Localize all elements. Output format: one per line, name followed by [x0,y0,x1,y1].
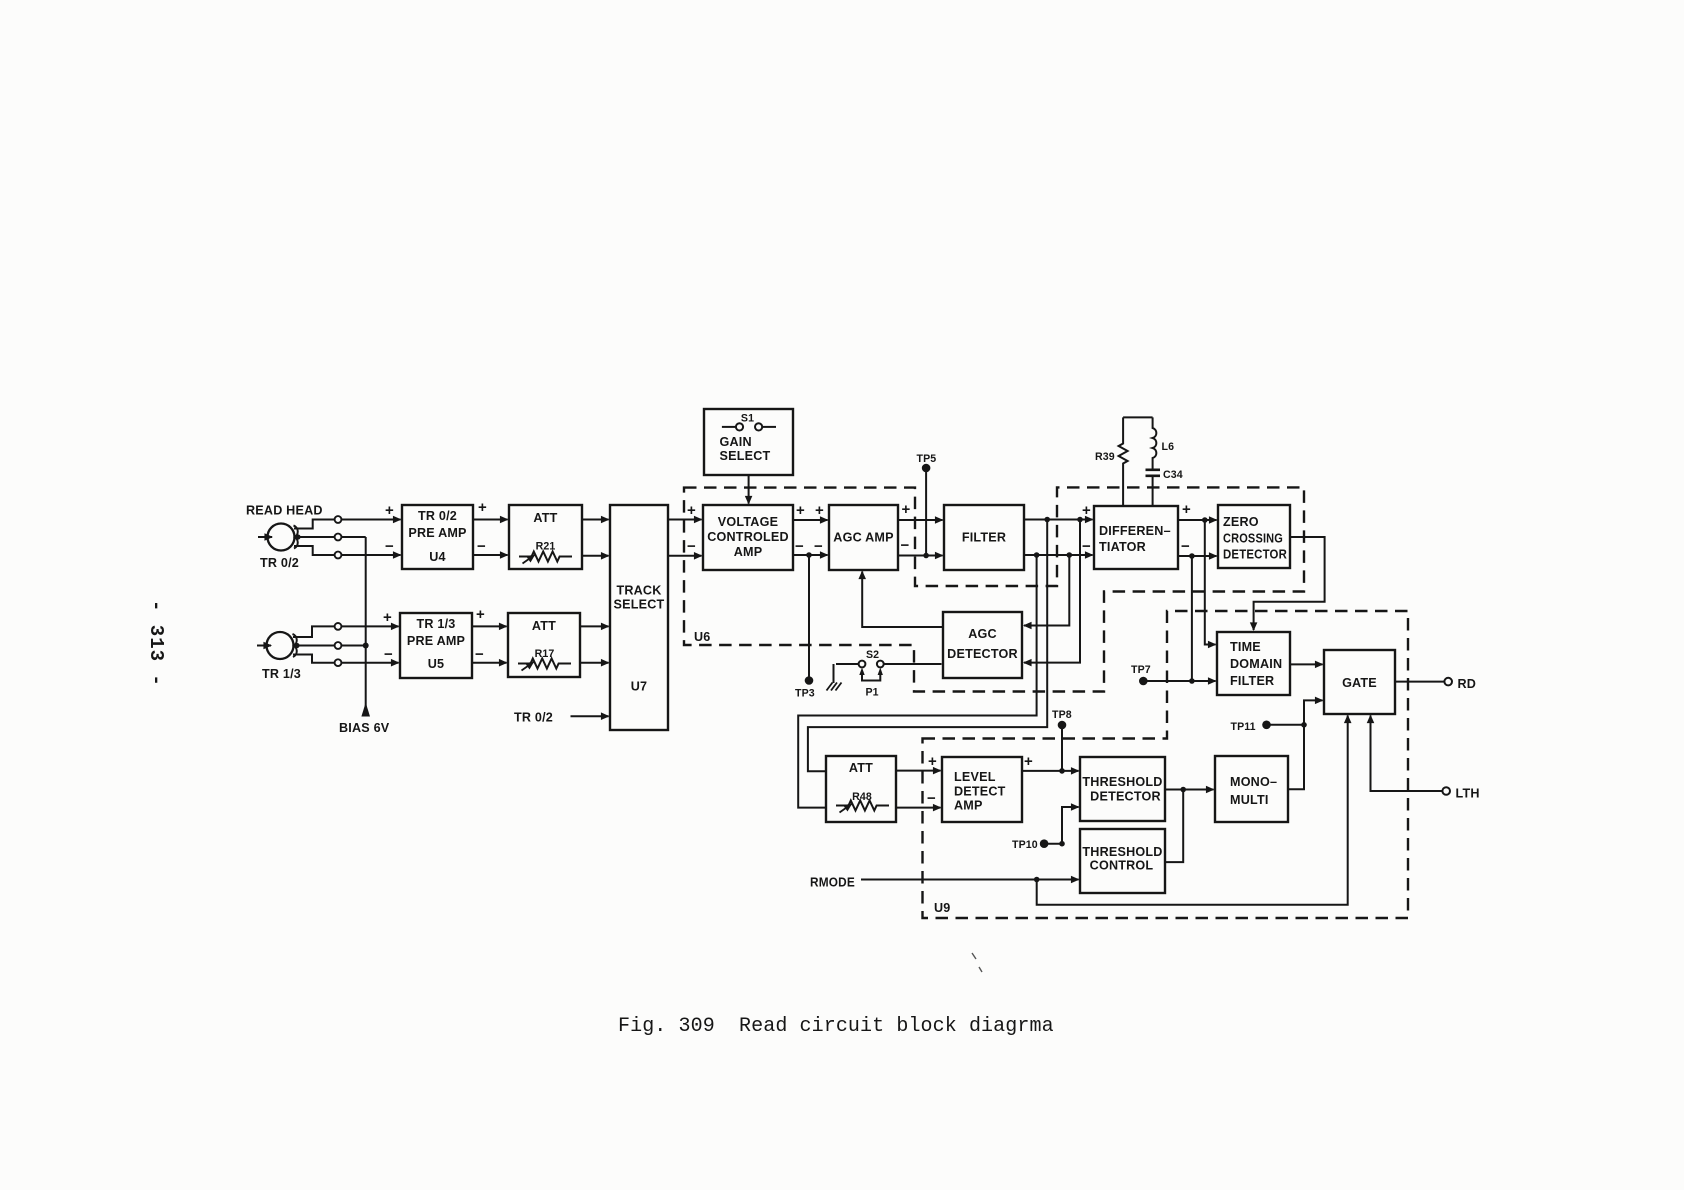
IC U9 dashed boundary [923,611,1409,918]
svg-text:U5: U5 [428,657,445,671]
block S1 GAIN SELECT [704,409,793,475]
svg-text:BIAS 6V: BIAS 6V [339,721,390,735]
svg-text:AGC: AGC [968,627,997,641]
svg-text:DETECTOR: DETECTOR [947,647,1018,661]
test point TP5 [922,464,931,473]
block GATE [1324,650,1395,714]
wire ATT R48 to LDA - [896,807,941,809]
svg-text:CONTROL: CONTROL [1090,859,1154,873]
block AGC AMP [829,505,898,570]
svg-text:R21: R21 [536,541,556,553]
caption [618,1015,1054,1038]
wire U4 + to ATT [473,519,508,521]
svg-text:U6: U6 [694,630,711,644]
svg-text:−: − [927,790,936,807]
wire AGC AMP to FILTER - [898,555,943,557]
svg-text:+: + [1082,502,1091,519]
block DIFFERENTIATOR [1094,506,1178,569]
block U4 TR 0/2 PRE AMP [402,505,473,569]
wire FILTER to DIFFERENTIATOR + [1024,519,1093,521]
svg-text:+: + [796,502,805,519]
wire ATT to U7 + [582,519,609,521]
svg-text:PRE AMP: PRE AMP [407,634,465,648]
svg-text:U9: U9 [934,901,951,915]
wire MONO-MULTI to GATE [1288,700,1323,789]
wire AGC AMP to FILTER + [898,519,943,521]
wire - riser to TP7 line [1191,556,1193,681]
svg-text:−: − [477,538,486,555]
svg-text:+: + [478,499,487,516]
wire head TR1/3 center tap [293,645,366,647]
svg-text:−: − [795,538,804,555]
test point TP3 [805,676,814,685]
svg-text:−: − [814,538,823,555]
test point TP10 [1040,839,1049,848]
svg-text:TRACK: TRACK [616,584,661,598]
svg-text:FILTER: FILTER [962,531,1006,545]
wire TDF to GATE [1290,663,1323,665]
block VOLTAGE CONTROLED AMP [703,505,793,570]
block AGC DETECTOR [943,612,1022,678]
svg-text:DOMAIN: DOMAIN [1230,657,1282,671]
wire ZCD output to TDF top [1254,537,1325,630]
wire RMODE to THRESHOLD CONTROL [861,879,1079,881]
wire ATT R48 to LDA + [896,770,941,772]
svg-text:TIME: TIME [1230,640,1261,654]
ground [827,664,842,691]
block THRESHOLD CONTROL [1080,829,1165,893]
svg-text:+: + [902,501,911,518]
svg-text:+: + [476,606,485,623]
svg-text:VOLTAGE: VOLTAGE [718,515,778,529]
svg-text:TR 1/3: TR 1/3 [262,667,301,681]
wire head TR0/2 center tap [294,536,366,538]
wire LTH to GATE bottom [1371,716,1443,792]
resistor R21 symbol [519,552,572,564]
svg-text:+: + [928,753,937,770]
wire BIAS 6V line [365,537,367,713]
block FILTER [944,505,1024,570]
svg-text:THRESHOLD: THRESHOLD [1082,845,1162,859]
switch S2 [836,661,942,668]
wire DIFF + to ZCD [1178,519,1217,521]
block TIME DOMAIN FILTER [1217,632,1290,695]
svg-text:TP10: TP10 [1012,839,1038,851]
svg-text:TR 0/2: TR 0/2 [260,556,299,570]
terminal RD [1444,678,1452,686]
svg-text:U4: U4 [429,550,446,564]
block ATT R17 [508,613,580,677]
wire head TR0/2 + to U4 [294,520,401,529]
wire U5 - to ATT [472,662,507,664]
wire THRESHOLD DETECTOR to MONO-MULTI [1165,789,1214,791]
svg-text:LEVEL: LEVEL [954,770,996,784]
svg-text:AMP: AMP [734,545,763,559]
node junctions on - line [1034,552,1040,558]
wire RMODE branch to GATE bottom [1037,716,1348,905]
wire ATT to U7 - [582,555,609,557]
wire FILTER to DIFFERENTIATOR - [1024,554,1093,556]
block U5 TR 1/3 PRE AMP [400,613,472,678]
connector pins TR0/2 [335,516,342,523]
wire head TR1/3 - to U5 [293,655,399,663]
svg-text:DETECT: DETECT [954,785,1006,799]
block MONO-MULTI [1215,756,1288,822]
node junctions on + line [1044,517,1050,523]
svg-text:DETECTOR: DETECTOR [1090,790,1161,804]
svg-text:+: + [385,502,394,519]
svg-text:TIATOR: TIATOR [1099,540,1146,554]
resistor R39 [1119,417,1128,506]
svg-text:MONO–: MONO– [1230,775,1277,789]
wire TP3 riser [808,555,810,680]
wire head TR1/3 + to U5 [293,626,399,637]
svg-text:R48: R48 [852,791,872,803]
stray specks [972,953,982,972]
connector pins TR1/3 [335,623,342,630]
wire TP7 to TIME DOMAIN FILTER [1147,680,1216,682]
svg-text:+: + [687,502,696,519]
wire AGC DETECTOR to AGC AMP [862,572,943,628]
wire GAIN SELECT to VCA [748,475,750,504]
svg-text:READ HEAD: READ HEAD [246,504,323,518]
svg-text:U7: U7 [631,680,648,694]
svg-text:TP7: TP7 [1131,664,1151,676]
wire U4 - to ATT [473,554,508,556]
block ATT R21 [509,505,582,569]
wire DIFF - to ZCD [1178,555,1217,557]
svg-text:−: − [385,538,394,555]
resistor R48 symbol [836,801,889,813]
read head TR 0/2 symbol [258,524,298,551]
svg-text:P1: P1 [866,687,879,699]
wire TP5 riser [925,468,927,556]
svg-text:SELECT: SELECT [720,449,771,463]
wire TR 0/2 select input [571,715,609,717]
test point TP8 [1058,721,1067,730]
wire TP11 tap [1270,724,1304,726]
wire link to THRESHOLD CONTROL [1166,790,1184,863]
IC U6 dashed boundary [684,487,1304,691]
wire LDA to THRESHOLD DETECTOR [1022,770,1079,772]
svg-text:TP3: TP3 [795,688,815,700]
svg-text:+: + [1182,501,1191,518]
svg-text:R17: R17 [535,648,555,660]
wire VCA to AGC AMP + [793,519,828,521]
svg-text:SELECT: SELECT [614,598,665,612]
wire + riser to TIME DOMAIN FILTER [1205,520,1216,645]
svg-text:RD: RD [1458,677,1477,691]
svg-text:−: − [687,538,696,555]
svg-text:L6: L6 [1162,441,1175,453]
svg-text:−: − [1181,538,1190,555]
svg-text:CROSSING: CROSSING [1223,532,1283,546]
block ZERO CROSSING DETECTOR [1218,505,1290,568]
svg-text:DIFFEREN–: DIFFEREN– [1099,524,1171,538]
block U7 TRACK SELECT [610,505,668,730]
svg-text:AGC AMP: AGC AMP [833,531,893,545]
svg-text:R39: R39 [1095,451,1115,463]
inductor L6 [1123,417,1156,469]
wire GATE to RD [1395,681,1444,683]
svg-text:S2: S2 [866,649,879,661]
wire TP10 to THRESHOLD DETECTOR [1048,807,1079,844]
svg-text:RMODE: RMODE [810,876,855,890]
jumper P1 [859,668,883,681]
svg-text:S1: S1 [741,413,754,425]
wire + branch to AGC DETECTOR [1024,520,1080,663]
svg-text:GAIN: GAIN [720,435,752,449]
wire U5 + to ATT [472,625,507,627]
wire VCA to AGC AMP - [793,554,828,556]
svg-text:+: + [815,502,824,519]
svg-text:ATT: ATT [849,761,873,775]
wire - branch to ATT R48 lower [798,555,1036,808]
svg-text:−: − [475,646,484,663]
svg-text:DETECTOR: DETECTOR [1223,548,1287,562]
test point TP7 [1139,677,1148,686]
wire - branch to AGC DETECTOR [1024,555,1069,626]
wire ATT to U7 lower - [580,662,609,664]
block THRESHOLD DETECTOR [1080,757,1165,821]
page number -313- [85,600,165,683]
svg-text:ATT: ATT [532,619,556,633]
svg-text:PRE AMP: PRE AMP [408,526,466,540]
svg-text:−: − [901,537,910,554]
block LEVEL DETECT AMP [942,757,1022,822]
terminal LTH [1442,787,1450,795]
svg-text:TP5: TP5 [917,453,937,465]
svg-text:GATE: GATE [1342,676,1377,690]
wire U7 to VCA + [668,519,702,521]
wire head TR0/2 - to U4 [294,546,401,555]
wire TP8 riser [1061,725,1063,771]
svg-text:TR 0/2: TR 0/2 [418,509,457,523]
test point TP11 [1262,721,1271,730]
svg-text:+: + [383,609,392,626]
resistor R17 symbol [518,659,571,671]
svg-text:CONTROLED: CONTROLED [707,530,789,544]
block ATT R48 [826,756,896,822]
svg-text:AMP: AMP [954,799,983,813]
read head TR 1/3 symbol [257,632,297,659]
svg-text:FILTER: FILTER [1230,674,1274,688]
svg-text:TP8: TP8 [1052,709,1072,721]
svg-text:−: − [1082,538,1091,555]
svg-text:TR 1/3: TR 1/3 [417,617,456,631]
svg-text:THRESHOLD: THRESHOLD [1082,775,1162,789]
wire ATT to U7 lower + [580,625,609,627]
svg-text:C34: C34 [1163,469,1183,481]
capacitor C34 [1146,470,1161,506]
svg-text:ATT: ATT [533,511,557,525]
svg-text:ZERO: ZERO [1223,515,1259,529]
switch S1 [722,423,776,430]
svg-text:TP11: TP11 [1231,721,1256,733]
svg-text:LTH: LTH [1456,787,1480,801]
svg-text:MULTI: MULTI [1230,793,1269,807]
wire + branch to ATT R48 upper [808,520,1047,772]
svg-text:+: + [1024,753,1033,770]
svg-text:−: − [384,646,393,663]
junction center taps [363,643,369,649]
svg-text:TR 0/2: TR 0/2 [514,711,553,725]
wire U7 to VCA - [668,555,702,557]
